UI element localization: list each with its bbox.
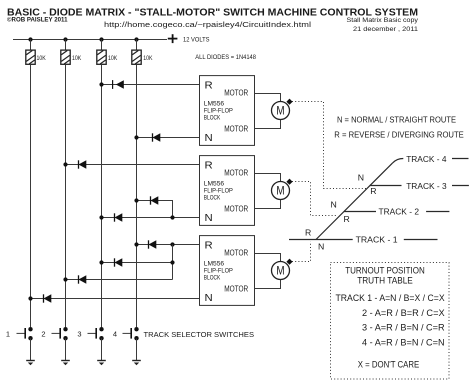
ground SW4 — [132, 361, 141, 366]
svg-text:BLOCK: BLOCK — [204, 195, 221, 202]
flip-flop block U2 — [200, 156, 255, 226]
dotted link M1 to turnout C — [292, 102, 367, 189]
wire row R3b — [102, 262, 173, 264]
dotted link M2 to turnout B — [292, 182, 337, 216]
track main diagonal — [316, 163, 393, 240]
wire row R3 — [137, 244, 200, 246]
motor M2 — [272, 182, 290, 200]
svg-text:TRACK 1 - A=N / B=X / C=X: TRACK 1 - A=N / B=X / C=X — [336, 293, 445, 303]
node rail-colB — [63, 37, 67, 41]
wire SW4 to ground — [136, 338, 138, 360]
track-4 line — [393, 159, 404, 163]
ground SW2 — [61, 361, 70, 366]
svg-text:R: R — [205, 79, 214, 91]
wire row N3 — [31, 298, 200, 300]
diode D-R2 — [79, 160, 87, 168]
svg-text:2: 2 — [41, 329, 45, 338]
diode D-N2b — [151, 196, 159, 204]
svg-text:R: R — [344, 214, 350, 224]
svg-text:4 - A=R / B=N / C=N: 4 - A=R / B=N / C=N — [362, 338, 445, 348]
svg-text:FLIP-FLOP: FLIP-FLOP — [204, 267, 234, 274]
svg-text:M: M — [276, 103, 284, 117]
svg-text:http://home.cogeco.ca/~rpaisle: http://home.cogeco.ca/~rpaisley4/Circuit… — [104, 20, 311, 29]
track-4 line right — [452, 158, 469, 160]
svg-text:LM556: LM556 — [204, 180, 225, 187]
wire column B — [65, 67, 67, 327]
wire row R2 — [66, 164, 200, 166]
svg-text:R: R — [205, 239, 214, 251]
node colC-N2 — [99, 215, 103, 219]
svg-text:10K: 10K — [108, 55, 118, 62]
diamond M3 — [286, 259, 292, 265]
svg-text:1: 1 — [6, 329, 10, 338]
svg-text:MOTOR: MOTOR — [224, 283, 248, 293]
wire U2 motor top — [255, 174, 281, 182]
svg-text:TRACK - 3: TRACK - 3 — [406, 181, 447, 191]
resistor R-D 10K — [132, 40, 153, 68]
node R3-join — [170, 242, 174, 246]
node colC-R3b — [99, 260, 103, 264]
svg-text:MOTOR: MOTOR — [224, 123, 248, 133]
wire column A — [30, 67, 32, 327]
dotted link M3 to turnout A — [292, 242, 311, 262]
wire U3 motor bottom — [255, 280, 281, 289]
svg-text:BLOCK: BLOCK — [204, 115, 221, 122]
wire U1 motor top — [255, 94, 281, 102]
track-2 line right — [426, 211, 449, 213]
node colB-R2 — [63, 162, 67, 166]
truth table box — [331, 263, 450, 380]
wire row R3c — [66, 279, 173, 281]
ground SW3 — [97, 361, 106, 366]
svg-text:N: N — [331, 200, 337, 210]
svg-text:R: R — [370, 186, 376, 196]
svg-text:TRACK - 4: TRACK - 4 — [406, 154, 447, 164]
switch SW4 — [113, 327, 139, 340]
flip-flop block U1 — [200, 76, 255, 146]
node colB-R3c — [63, 277, 67, 281]
wire U2 motor bottom — [255, 200, 281, 209]
track-1 line right — [404, 239, 438, 241]
svg-text:LM556: LM556 — [204, 260, 225, 267]
flip-flop block U3 — [200, 236, 255, 306]
svg-text:N: N — [205, 212, 213, 224]
wire U1 motor bottom — [255, 120, 281, 129]
svg-text:R = REVERSE / DIVERGING ROUTE: R = REVERSE / DIVERGING ROUTE — [334, 130, 464, 140]
motor M3 — [272, 262, 290, 280]
svg-text:3: 3 — [77, 329, 81, 338]
svg-text:Stall Matrix Basic copy: Stall Matrix Basic copy — [347, 17, 419, 24]
wire row N2 — [102, 217, 200, 219]
diode D-N3 — [44, 294, 52, 302]
svg-text:FLIP-FLOP: FLIP-FLOP — [204, 107, 234, 114]
svg-text:MOTOR: MOTOR — [224, 168, 248, 178]
switch SW2 — [41, 327, 67, 340]
svg-text:MOTOR: MOTOR — [224, 248, 248, 258]
svg-text:TRUTH TABLE: TRUTH TABLE — [357, 275, 413, 285]
diode D-R3b — [115, 258, 123, 266]
svg-text:R: R — [205, 159, 214, 171]
track-2 line — [344, 211, 376, 213]
svg-text:X = DON'T CARE: X = DON'T CARE — [358, 359, 420, 369]
node R3b-join — [170, 260, 174, 264]
svg-text:10K: 10K — [143, 55, 153, 62]
diamond M1 — [286, 99, 292, 105]
svg-text:21 december , 2011: 21 december , 2011 — [353, 26, 418, 33]
svg-text:MOTOR: MOTOR — [224, 203, 248, 213]
svg-text:©ROB PAISLEY 2011: ©ROB PAISLEY 2011 — [7, 16, 68, 24]
node colA-N3 — [28, 296, 32, 300]
+12V power rail wire — [13, 39, 167, 41]
svg-text:N: N — [318, 242, 324, 252]
diode D-N2 — [115, 213, 123, 221]
diode D-N1 — [153, 133, 161, 141]
diode D-R3c — [79, 275, 87, 283]
node N2-join — [170, 215, 174, 219]
wire U3 motor top — [255, 254, 281, 262]
node colD-R3 — [134, 242, 138, 246]
node colC-R1 — [99, 82, 103, 86]
resistor R-C 10K — [97, 40, 118, 68]
diamond M2 — [286, 179, 292, 185]
wire column C — [101, 67, 103, 327]
svg-text:3 - A=R / B=N / C=R: 3 - A=R / B=N / C=R — [362, 323, 445, 333]
track-3 line — [370, 185, 402, 187]
ground SW1 — [26, 361, 35, 366]
svg-text:M: M — [276, 263, 284, 277]
node rail-colD — [134, 37, 138, 41]
svg-text:2 - A=R / B=R / C=X: 2 - A=R / B=R / C=X — [362, 308, 445, 318]
wire SW1 to ground — [30, 338, 32, 360]
svg-text:M: M — [276, 183, 284, 197]
track-1 line — [289, 239, 353, 241]
diode D-R1 — [113, 80, 124, 89]
svg-text:10K: 10K — [37, 55, 47, 62]
svg-text:R: R — [305, 228, 311, 238]
svg-text:MOTOR: MOTOR — [224, 88, 248, 98]
wire SW2 to ground — [65, 338, 67, 360]
node colD-N1 — [134, 135, 138, 139]
svg-text:BLOCK: BLOCK — [204, 275, 221, 282]
svg-text:12 VOLTS: 12 VOLTS — [183, 36, 210, 43]
svg-text:TRACK - 2: TRACK - 2 — [379, 206, 420, 216]
wire column D — [136, 67, 138, 327]
track-3 line right — [452, 185, 469, 187]
svg-text:ALL DIODES = 1N4148: ALL DIODES = 1N4148 — [195, 54, 256, 61]
wire row R1 — [102, 84, 200, 86]
plus symbol — [168, 34, 178, 43]
wire row N1 — [137, 137, 200, 139]
svg-text:4: 4 — [113, 329, 117, 338]
svg-text:N = NORMAL / STRAIGHT ROUTE: N = NORMAL / STRAIGHT ROUTE — [337, 115, 456, 125]
svg-text:N: N — [205, 132, 213, 144]
node rail-colA — [28, 37, 32, 41]
wire SW3 to ground — [101, 338, 103, 360]
svg-text:TRACK SELECTOR SWITCHES: TRACK SELECTOR SWITCHES — [144, 330, 255, 339]
svg-text:N: N — [205, 292, 213, 304]
diode D-R3 — [149, 240, 157, 248]
svg-text:LM556: LM556 — [204, 100, 225, 107]
node colD-N2b — [134, 198, 138, 202]
wire R3 branch vertical — [172, 245, 174, 280]
svg-text:TURNOUT POSITION: TURNOUT POSITION — [345, 266, 425, 276]
svg-text:FLIP-FLOP: FLIP-FLOP — [204, 187, 234, 194]
resistor R-A 10K — [26, 40, 47, 68]
svg-text:N: N — [358, 173, 364, 183]
svg-text:10K: 10K — [72, 55, 82, 62]
node rail-colC — [99, 37, 103, 41]
wire row N2b colD branch — [137, 201, 173, 218]
resistor R-B 10K — [61, 40, 82, 68]
motor M1 — [272, 102, 290, 120]
svg-text:TRACK - 1: TRACK - 1 — [356, 235, 398, 245]
switch SW3 — [77, 327, 103, 340]
switch SW1 — [6, 327, 33, 340]
